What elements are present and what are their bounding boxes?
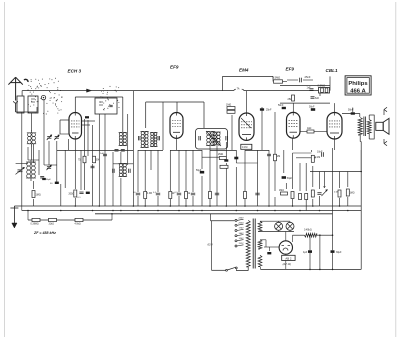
wire mid connectors [57,150,134,152]
wire box2 to coil [31,113,33,131]
page edge line left [4,2,6,337]
resistor h [185,192,188,199]
capacitor n [255,192,259,194]
wire secondary mid to rectifier [260,239,266,241]
oscillator coil L2 [27,162,31,166]
wire ECH3 plate [74,97,76,113]
ground arrow [13,206,15,224]
power transformer secondary bottom [258,255,262,266]
wire y157.8 segment right [296,157,316,159]
resistor v [346,189,349,196]
oscillator feedback coil [119,164,122,167]
svg-text:25nF: 25nF [266,109,272,112]
IF transformer 1 primary [119,133,122,136]
bus wire y213.8 [95,213,333,215]
rectifier tube AZ1 [279,241,292,254]
svg-text:1MΩ: 1MΩ [350,193,355,195]
wire speaker frame top [342,113,360,115]
resistor p [299,194,302,200]
resistor 0.8M ohm block [319,88,330,94]
resistor 0.1M r [311,155,314,162]
svg-text:4µF: 4µF [303,251,308,254]
capacitor x [267,153,271,155]
resistor 1M osc [32,191,35,198]
left branch bus y220 [28,219,112,221]
wire top rail y76 [223,75,274,77]
capacitor 50nF b [282,107,286,109]
power transformer core [252,219,254,269]
grid stopper 1k [307,130,314,133]
HT wire right [360,172,362,270]
cap at output transformer [351,112,355,114]
wire coil link [31,147,33,160]
svg-text:ZF = 488 kHz: ZF = 488 kHz [33,231,56,235]
capacitor 50uF [200,171,204,174]
svg-text:50pF: 50pF [46,179,52,181]
IF transformer 2 box [196,129,228,150]
resistor s [311,190,314,197]
resistor u [338,190,341,197]
output transformer secondary [367,120,371,134]
speaker cone [383,118,389,134]
wire ECH3 right to IFT [82,120,96,122]
capacitor pad [55,182,59,184]
resistor 30k [93,156,96,163]
svg-text:30µF: 30µF [336,251,342,254]
wire vertical stems [21,112,23,206]
rectifier bottom wire [285,254,287,255]
svg-text:125V: 125V [239,238,245,240]
resistor 0.3M [144,192,147,199]
power transformer secondary top [258,221,262,231]
svg-text:50µF: 50µF [196,170,202,172]
svg-text:AB 2: AB 2 [285,256,292,260]
svg-text:1MΩ: 1MΩ [279,190,284,192]
jack circle [41,95,45,99]
resistor w [274,154,277,161]
svg-text:6nF: 6nF [315,97,320,100]
arrow on rail [87,89,92,92]
tube EM4 tuning indicator [239,113,254,140]
svg-text:220V: 220V [238,218,245,220]
svg-text:31kΩ: 31kΩ [49,224,55,226]
power transformer taps [235,219,237,221]
IF transformer 2 coils [207,132,211,136]
tuning capacitor C3 [18,169,23,171]
capacitor i [191,192,195,194]
resistor q [305,194,308,200]
svg-text:110V: 110V [239,243,244,245]
wire rail y171.5 right [310,171,361,173]
svg-text:Philips: Philips [348,81,368,87]
svg-text:10nF: 10nF [317,151,323,154]
tube EF9 first [170,113,183,139]
antenna [15,78,17,101]
svg-text:1kΩ: 1kΩ [307,127,312,130]
svg-text:(AZ 11): (AZ 11) [282,262,291,266]
EM4 top resistor 2 [227,110,235,113]
resistor 0.39M on branch [32,218,40,221]
power transformer secondary mid [258,240,262,249]
speaker box [376,122,383,130]
bus wire y210.5 [22,210,361,212]
svg-text:50nF: 50nF [309,106,315,109]
aerial input box 1 [17,96,24,113]
heater wire bottom [260,231,294,233]
capacitor 50pF [42,178,46,180]
svg-text:1MΩ: 1MΩ [226,104,231,107]
resistor 0.5M ohm top [274,80,283,83]
svg-text:CBL1: CBL1 [326,68,338,73]
output transformer core [363,117,365,137]
bus wire y206 [14,205,361,207]
tuning gang dots [48,77,51,80]
volume arrow [322,190,328,197]
tube EF9 second [287,112,301,138]
svg-text:0.1M: 0.1M [242,146,247,149]
pilot lamp 2 [286,222,294,230]
heater wire top [260,220,283,222]
resistor 0.1M below EM4 [241,144,252,149]
svg-text:175V: 175V [239,228,245,230]
resistor 50k [83,156,86,163]
svg-text:145V: 145V [239,232,245,235]
Philips 466 A label box [345,76,371,95]
bottom return wire [261,268,362,270]
oscillator section box [95,98,117,114]
capacitor k [215,192,219,194]
svg-text:4.9kΩ: 4.9kΩ [75,224,81,226]
resistor 200 ohm [74,190,77,197]
wire top rail y90 right part [244,90,320,92]
pilot lamp 1 [275,222,283,230]
wire transformer bottom [359,135,361,142]
capacitor 0.1uF a [79,191,83,193]
blob y [224,159,228,161]
resistor 31k on branch [49,218,57,221]
svg-text:50µF: 50µF [287,178,293,180]
svg-text:EF9: EF9 [286,67,295,72]
svg-text:1nF: 1nF [100,153,104,155]
wire y85 segment [280,85,330,87]
coupling coil pair [141,132,144,135]
aerial input box 2 [28,96,38,113]
svg-text:25nF: 25nF [305,75,311,79]
wire rail from antenna coil [21,91,23,96]
capacitor 50nF output [311,108,315,111]
power transformer primary winding [246,220,250,267]
IF transformer 1 tuning caps [115,149,119,151]
resistor j [209,192,212,199]
svg-text:EF9: EF9 [170,65,179,70]
switch blob [24,79,28,82]
svg-text:0.1M: 0.1M [315,157,320,159]
capacitor blob b [86,192,90,194]
trimmer C2 [55,136,59,138]
svg-text:0.45kΩ: 0.45kΩ [304,229,312,232]
wire top rail y90 [22,90,234,92]
svg-text:200V: 200V [238,223,245,225]
junction dots [75,205,77,207]
svg-text:2M: 2M [277,156,280,158]
capacitor 25nF top [299,78,301,83]
speaker terminal bottom [383,139,385,144]
svg-text:0.8MΩ: 0.8MΩ [318,84,326,88]
wire mains lead [210,214,212,221]
svg-text:1nF: 1nF [307,87,312,90]
svg-text:7A: 7A [237,87,240,90]
capacitor 50uF2 [282,176,286,179]
capacitor e [156,192,160,194]
capacitor g [177,192,181,194]
speaker frame wires [368,115,370,120]
svg-text:50nF: 50nF [348,109,354,112]
HT vertical from output transformer [360,142,362,172]
wire EF9 screen rail y102 [146,101,204,103]
fuse 7A [234,89,236,90]
coupling coil pair 2 [151,133,154,136]
capacitor 100pF [103,153,107,155]
capacitor blob l [234,157,238,160]
coupling cap CBL1 [321,152,323,157]
capacitor C5 [40,175,44,177]
capacitor 6nF [311,96,315,98]
resistor m [244,192,247,199]
mains switch [226,269,228,271]
wire EM4 plate to rail [246,91,248,113]
wire y103 segment [280,102,330,104]
svg-text:ECH 3: ECH 3 [68,69,82,74]
svg-text:0.39MΩ: 0.39MΩ [31,224,39,226]
wire antenna to coil box [16,111,37,113]
EM4 top resistor [227,107,235,110]
rectifier label box [282,255,295,260]
svg-text:466 A: 466 A [350,88,366,94]
resistor f [169,192,172,199]
wire grid ECH3 from gang [60,119,69,121]
resistor 1M horizontal [281,192,288,195]
antenna plug [14,101,18,103]
capacitor 0.1uF c [91,165,95,167]
trimmer C1 [47,136,51,138]
capacitor 50pF d [136,192,140,194]
svg-text:0.5MΩ: 0.5MΩ [273,76,281,80]
cathode cap blob [267,252,271,254]
wire EF9b plate stub [292,103,294,112]
resistor 0.5M mid [220,165,228,168]
field coil choke [304,233,316,237]
antenna coil L1 [28,133,32,137]
capacitor 1nF [310,88,314,90]
resistor 25k ohm [292,95,295,101]
svg-text:50nF: 50nF [278,104,284,107]
capacitor t [317,192,321,194]
svg-text:2MΩ: 2MΩ [218,153,223,156]
resistor 2M [219,157,226,160]
trimmer C4 [47,166,51,168]
wire mains lead 2 [211,221,213,270]
capacitor 25nF2 [260,108,264,110]
svg-text:63 V: 63 V [208,243,214,247]
wire CBL1 plate stub [334,103,336,112]
resistor 4.9k on branch [75,218,83,221]
svg-text:EM4: EM4 [239,68,249,73]
electrolytic 30uF [331,250,335,253]
output transformer primary [358,118,362,136]
page edge line right [395,2,397,337]
resistor o [291,192,294,199]
wire field tap [319,235,321,269]
svg-text:0.3M: 0.3M [147,193,152,195]
svg-text:1MΩ: 1MΩ [36,194,41,197]
tube ECH3 [69,113,82,140]
svg-text:200Ω: 200Ω [69,194,75,196]
speaker terminal top [383,110,385,116]
tube CBL1 output [327,113,342,140]
electrolytic 4uF [308,250,312,253]
